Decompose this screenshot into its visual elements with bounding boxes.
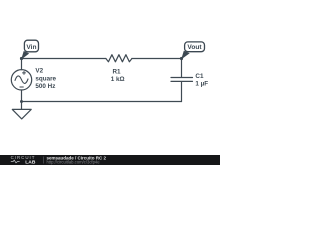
- svg-text:Vin: Vin: [26, 44, 36, 51]
- svg-text:1 µF: 1 µF: [195, 81, 208, 88]
- svg-text:R1: R1: [112, 69, 121, 76]
- svg-text:1 kΩ: 1 kΩ: [111, 76, 125, 83]
- svg-text:C1: C1: [195, 73, 204, 80]
- svg-text:V2: V2: [35, 68, 43, 75]
- svg-text:http://circuitlab.com/c/3cfp4e: http://circuitlab.com/c/3cfp4e: [47, 159, 101, 164]
- svg-text:500 Hz: 500 Hz: [35, 83, 55, 90]
- svg-text:Vout: Vout: [187, 44, 202, 51]
- svg-text:LAB: LAB: [25, 159, 36, 165]
- svg-text:square: square: [35, 75, 56, 82]
